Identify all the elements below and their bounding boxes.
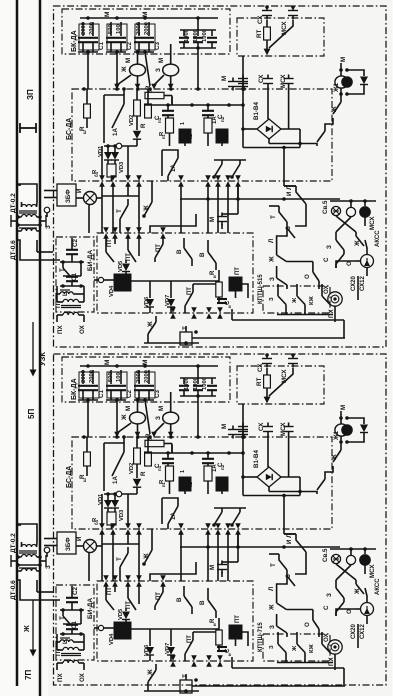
contacts inside KPTSh: [269, 639, 333, 663]
block ZBF: [57, 184, 76, 206]
svg-text:З: З: [269, 297, 275, 301]
svg-text:ДТ-0.2: ДТ-0.2: [10, 533, 17, 553]
svg-text:Т: Т: [270, 215, 277, 219]
relay I coil: [98, 622, 219, 645]
svg-text:Т: Т: [116, 557, 123, 561]
svg-text:С: С: [323, 605, 330, 610]
svg-text:ПХ: ПХ: [57, 673, 64, 682]
capacitor Cp1: [154, 105, 174, 123]
block BS-DA: [66, 89, 332, 181]
lamp Zh signal: [114, 50, 145, 89]
svg-text:ОХ: ОХ: [79, 672, 86, 682]
contact Z ladder: [269, 266, 287, 289]
capacitor bank 1000x3: [179, 16, 217, 50]
relay PT coil: [229, 615, 248, 646]
svg-text:З: З: [269, 625, 276, 629]
svg-text:О: О: [304, 274, 311, 279]
svg-text:VD3: VD3: [119, 509, 125, 521]
terminal MSX lower: [280, 74, 294, 88]
svg-text:М: М: [142, 12, 149, 17]
wire SX feed to I-L: [282, 494, 296, 534]
contact Zh sv: [354, 232, 364, 247]
svg-text:В: В: [176, 597, 183, 602]
svg-text:ПТ: ПТ: [55, 648, 62, 656]
capacitor bank 1000x3: [179, 364, 217, 398]
svg-text:СХ20: СХ20: [351, 624, 357, 639]
svg-text:VD1: VD1: [98, 493, 104, 505]
svg-text:п2: п2: [188, 481, 193, 487]
svg-text:VD3: VD3: [119, 161, 125, 173]
relay 1A coil second: [212, 116, 228, 146]
contact PT top: [103, 581, 118, 610]
contact T chain: [269, 206, 306, 238]
relay I coil: [98, 274, 219, 297]
svg-text:З: З: [326, 593, 333, 597]
contact PT third: [155, 233, 166, 262]
wire mid horizontal A: [180, 197, 340, 201]
svg-text:МСХ: МСХ: [280, 74, 287, 88]
svg-text:1000: 1000: [184, 377, 190, 390]
svg-text:ДТ-0.6: ДТ-0.6: [10, 580, 17, 600]
svg-text:п1: п1: [161, 133, 166, 139]
svg-text:ОХ: ОХ: [79, 324, 86, 334]
terminal third pair: [238, 423, 248, 436]
svg-text:СХ: СХ: [258, 74, 265, 83]
diode VD5: [118, 260, 130, 274]
capacitor C2 500+100: [106, 370, 133, 402]
capacitor Cp2: [202, 105, 225, 122]
svg-text:ПХ: ПХ: [328, 309, 335, 318]
svg-text:С3: С3: [154, 390, 161, 398]
svg-text:ЗБФ: ЗБФ: [65, 189, 72, 203]
svg-text:Л: Л: [268, 239, 275, 243]
wire MSX diagonal: [264, 20, 293, 55]
node 5P track label: [27, 409, 36, 419]
wire arrows bottom BS-DA: [99, 523, 241, 547]
frame signal point block: [54, 354, 387, 685]
svg-text:ДТ-0.2: ДТ-0.2: [10, 193, 17, 213]
svg-text:З: З: [155, 416, 162, 420]
svg-text:С2: С2: [126, 42, 133, 50]
svg-text:5П: 5П: [27, 409, 36, 419]
contact pair right: [212, 160, 246, 179]
wire filter to I relay: [94, 627, 98, 629]
block BI-DA relay: [97, 581, 253, 661]
svg-text:С1: С1: [98, 42, 105, 50]
wire 1000-bank down: [197, 48, 199, 89]
svg-text:Ж: Ж: [121, 414, 128, 421]
svg-text:БИ-ДА: БИ-ДА: [87, 250, 94, 271]
node ZP track label: [26, 89, 35, 100]
indicator Св.5: [322, 547, 376, 578]
svg-text:п2: п2: [188, 133, 193, 139]
svg-text:БС-ДА: БС-ДА: [66, 118, 73, 140]
lamp I indicator: [76, 536, 102, 581]
svg-text:В: В: [199, 252, 206, 257]
contact PT second: [125, 581, 142, 610]
node Zh arrow: [22, 600, 37, 657]
capacitor C2 filter: [60, 586, 84, 612]
contact Zh sv: [354, 580, 364, 595]
wire MSX diagonal: [264, 368, 293, 403]
wire right column: [232, 276, 358, 338]
diode VD7: [165, 629, 175, 661]
diode lamp Zh1: [339, 418, 368, 444]
svg-text:З: З: [46, 565, 52, 569]
diode VD6: [144, 629, 154, 661]
svg-text:Ж: Ж: [121, 66, 128, 73]
svg-text:1000: 1000: [184, 29, 190, 42]
terminal M cap: [221, 424, 248, 439]
resistor Rp1: [159, 466, 174, 494]
terminal MSX lower: [280, 422, 294, 436]
svg-text:БИ-ДА: БИ-ДА: [87, 598, 94, 619]
wire filter to I relay: [94, 279, 98, 281]
contact Zh bottom: [144, 664, 199, 693]
wire ZBF feed: [44, 539, 57, 546]
svg-text:М: М: [209, 565, 216, 570]
contact Zh mid: [142, 529, 152, 566]
svg-text:б4: б4: [94, 519, 99, 525]
svg-text:СХ20: СХ20: [351, 276, 357, 291]
svg-text:МСХ: МСХ: [280, 422, 287, 436]
block BK-DA: [62, 9, 230, 54]
capacitor C2 filter: [60, 238, 84, 264]
resistor Rp1: [159, 118, 174, 146]
svg-text:И: И: [76, 536, 83, 541]
diode VD5: [118, 608, 130, 622]
svg-text:М: М: [221, 76, 228, 81]
svg-text:R: R: [140, 471, 147, 476]
resistor Rsha: [140, 89, 151, 128]
wire verticals mid: [102, 184, 238, 233]
contact B right: [199, 240, 216, 270]
wire BS-DA top bus: [82, 87, 246, 91]
resistor RT: [256, 20, 270, 50]
contact Z sv: [326, 232, 344, 254]
capacitor Ci: [217, 299, 232, 308]
svg-text:М: М: [340, 57, 347, 62]
capacitor C1 2000+2000: [78, 370, 105, 402]
svg-text:М: М: [104, 12, 111, 17]
svg-text:ПТ: ПТ: [235, 615, 241, 623]
resistor RT: [256, 368, 270, 398]
svg-text:RТ: RТ: [256, 30, 263, 38]
transformer PT: [55, 299, 86, 334]
svg-text:М: М: [209, 217, 216, 222]
wire mid horizontal A: [180, 545, 340, 549]
wire C2 column down: [116, 52, 118, 87]
block BI-DA filter: [56, 237, 94, 312]
block BI-DA relay: [97, 233, 253, 313]
terminal SX lower: [258, 422, 273, 436]
resistor Rp2: [186, 118, 212, 146]
svg-text:Т: Т: [270, 563, 277, 567]
contact Zh lamp circuit: [300, 88, 341, 146]
svg-text:ПХ: ПХ: [57, 325, 64, 334]
terminal third pair: [238, 75, 248, 88]
diode VD2: [129, 437, 141, 494]
diode VD6: [144, 281, 154, 313]
svg-text:СХ: СХ: [257, 363, 264, 372]
relay 1A coil: [179, 470, 191, 494]
svg-text:ОХ: ОХ: [323, 632, 330, 642]
contact L ladder: [268, 576, 313, 611]
contact T filter: [59, 610, 81, 624]
frame signal point block: [54, 6, 387, 347]
svg-text:И Л: И Л: [286, 185, 293, 196]
node Z bond terminal: [44, 547, 52, 569]
svg-text:п2: п2: [220, 116, 225, 122]
svg-text:RТ: RТ: [256, 378, 263, 386]
rectifier B1-B4: [253, 102, 281, 139]
svg-text:С3: С3: [154, 42, 161, 50]
wire KPTSh stubs: [278, 284, 322, 291]
indicator Св.5: [322, 199, 376, 230]
node 7P track label: [24, 670, 33, 680]
svg-text:Ж: Ж: [292, 297, 298, 304]
transformer PT: [55, 647, 86, 682]
lamp Zh signal: [114, 398, 145, 437]
svg-text:КПТШ-715: КПТШ-715: [258, 622, 264, 652]
svg-text:1А: 1А: [112, 128, 119, 136]
capacitor C1 filter: [60, 273, 84, 288]
terminal M mid: [150, 561, 227, 582]
contact S O chain: [323, 602, 353, 616]
block КПТШ-515: [258, 274, 330, 313]
relay 1A coil: [179, 122, 191, 146]
svg-text:1А: 1А: [212, 464, 218, 472]
transformer DT-0.6: [10, 568, 60, 600]
svg-text:СХ: СХ: [258, 422, 265, 431]
svg-text:М: М: [125, 58, 132, 63]
relay T coil: [180, 674, 345, 693]
svg-text:7П: 7П: [24, 670, 33, 680]
svg-text:КПТШ-515: КПТШ-515: [258, 274, 264, 304]
contact 1A lower: [162, 498, 178, 529]
svg-text:М: М: [142, 360, 149, 365]
svg-text:Ж: Ж: [22, 625, 31, 633]
svg-text:п1: п1: [157, 117, 162, 123]
svg-text:М: М: [158, 406, 165, 411]
svg-text:М: М: [340, 405, 347, 410]
svg-text:1А: 1А: [112, 476, 119, 484]
contact Z ladder: [269, 614, 287, 637]
wire C3 column down: [145, 52, 150, 86]
relay PT coil: [229, 267, 248, 298]
terminal M cap: [221, 76, 248, 91]
resistor Rp2: [186, 466, 212, 494]
svg-text:З: З: [155, 68, 162, 72]
contact T chain: [269, 554, 306, 586]
capacitor Cp2: [202, 453, 225, 470]
wire crossover Sv: [336, 216, 365, 232]
svg-text:п2: п2: [220, 464, 225, 470]
wire right column: [232, 624, 358, 686]
label SX20 SX12: [351, 624, 366, 639]
contact I-L: [284, 533, 306, 558]
wire arrows bottom BS-DA: [99, 175, 241, 199]
svg-text:И: И: [76, 188, 83, 193]
svg-text:КЖ: КЖ: [309, 295, 315, 305]
terminal OX concentric: [323, 284, 342, 322]
wire crossover Sv: [336, 564, 365, 580]
svg-text:R: R: [140, 123, 147, 128]
wire bridge leads: [241, 56, 302, 148]
transformer lamp symbol: [336, 240, 374, 276]
lamp Zh1: [333, 405, 352, 441]
block ZBF: [57, 532, 76, 554]
block BI-DA filter: [56, 585, 94, 660]
lamp Zh1: [333, 57, 352, 93]
relay 1A coil second: [212, 464, 228, 494]
contact T filter: [59, 262, 81, 276]
svg-text:ПТ: ПТ: [235, 267, 241, 275]
wire bus mid BS-DA: [145, 97, 245, 107]
transformer DT-0.6: [10, 228, 60, 260]
svg-text:И Л: И Л: [286, 533, 293, 544]
svg-text:З: З: [326, 245, 333, 249]
svg-text:МСХ: МСХ: [369, 564, 376, 578]
svg-text:п1: п1: [157, 465, 162, 471]
wire ZBF feed: [44, 191, 57, 198]
contact 1A lower: [162, 150, 178, 181]
svg-text:ПТ: ПТ: [107, 239, 113, 247]
svg-text:М: М: [221, 424, 228, 429]
contact I-L: [284, 185, 306, 210]
block BK-DA: [62, 357, 230, 402]
svg-text:1000: 1000: [202, 377, 208, 390]
svg-text:R: R: [210, 618, 216, 623]
wire C2 column down: [116, 400, 118, 435]
transformer DT-0.2: [10, 184, 46, 227]
svg-text:Ж: Ж: [269, 256, 276, 263]
diode VD2: [129, 89, 141, 146]
svg-text:АКСС: АКСС: [375, 578, 381, 595]
contact O ladder: [304, 610, 319, 638]
svg-text:СХ12: СХ12: [360, 276, 366, 291]
svg-text:1: 1: [180, 122, 186, 125]
capacitor C2 500+100: [106, 22, 133, 54]
svg-text:и: и: [212, 275, 217, 278]
terminal MSX: [281, 353, 298, 383]
svg-text:ПХ: ПХ: [328, 657, 335, 666]
svg-text:ш: ш: [82, 478, 87, 482]
node UZK arrow: [30, 322, 48, 377]
contact O ladder: [304, 262, 319, 290]
capacitor C1 2000+2000: [78, 22, 105, 54]
wire M bus BK-DA: [80, 360, 218, 368]
svg-text:КЖ: КЖ: [309, 643, 315, 653]
svg-text:З: З: [269, 645, 275, 649]
svg-text:1А: 1А: [212, 116, 218, 124]
svg-text:б4: б4: [94, 171, 99, 177]
svg-text:БС-ДА: БС-ДА: [66, 466, 73, 488]
contact L ladder: [268, 228, 313, 263]
diode VD7: [165, 281, 175, 313]
contact S O chain: [323, 254, 353, 268]
wire BS-DA top bus: [82, 435, 246, 439]
svg-text:В: В: [199, 600, 206, 605]
capacitor C3 2000+2000: [134, 370, 161, 402]
capacitor Ci: [217, 647, 232, 656]
svg-text:VD5: VD5: [118, 260, 124, 272]
resistor Rsh: [79, 89, 90, 134]
svg-text:1А: 1А: [171, 512, 177, 520]
wire rail ZP-5P left: [16, 0, 19, 686]
svg-text:СХ: СХ: [257, 15, 264, 24]
inductor L: [57, 286, 84, 300]
contacts inside KPTSh: [269, 291, 333, 315]
contact PT lower: [185, 284, 216, 313]
resistor Rb: [145, 85, 172, 105]
svg-text:ПТ: ПТ: [107, 587, 113, 595]
resistor Rsh: [79, 437, 90, 482]
terminal M mid: [150, 213, 227, 234]
svg-text:З: З: [269, 277, 276, 281]
svg-text:ДТ-0.6: ДТ-0.6: [10, 240, 17, 260]
wire 1000-bank down: [197, 396, 199, 437]
wire verticals mid: [102, 532, 238, 581]
svg-text:Св.5: Св.5: [322, 548, 329, 562]
wire KPTSh stubs: [278, 632, 322, 639]
contact B left: [176, 238, 192, 266]
label AKSS: [375, 578, 381, 595]
svg-text:R: R: [145, 433, 152, 438]
wire C1 column down: [87, 52, 89, 89]
svg-text:АКСС: АКСС: [375, 230, 381, 247]
svg-text:УЗК: УЗК: [38, 352, 47, 366]
block RT feed: [237, 366, 324, 404]
svg-text:ш: ш: [82, 130, 87, 134]
contact Zh lamp circuit: [300, 436, 341, 494]
diode lamp Zh1: [339, 70, 368, 96]
lamp Z signal: [151, 44, 179, 89]
svg-text:С1: С1: [98, 390, 105, 398]
contact pair right: [212, 508, 246, 527]
svg-text:О: О: [304, 622, 311, 627]
label AKSS: [375, 230, 381, 247]
wire boundary arrows BI-DA top: [103, 575, 166, 581]
svg-text:М: М: [125, 406, 132, 411]
svg-text:Св.5: Св.5: [322, 200, 329, 214]
capacitor Cp1: [154, 453, 174, 471]
transformer lamp symbol: [336, 588, 374, 624]
wire C3 column down: [145, 400, 150, 434]
block RT feed: [237, 18, 324, 56]
svg-text:ЗБФ: ЗБФ: [65, 537, 72, 551]
resistor Rsha: [140, 437, 151, 476]
svg-text:ПТ: ПТ: [55, 300, 62, 308]
contact PT second: [125, 233, 142, 262]
lamp I indicator: [76, 188, 102, 233]
block BS-DA: [66, 437, 332, 529]
svg-text:Ж: Ж: [269, 604, 276, 611]
svg-text:и: и: [227, 653, 232, 656]
svg-text:В: В: [176, 249, 183, 254]
contact PT top: [103, 233, 118, 262]
svg-text:М: М: [158, 58, 165, 63]
svg-text:1А: 1А: [171, 164, 177, 172]
label SX20 SX12: [351, 276, 366, 291]
wire bus mid BS-DA: [145, 445, 245, 455]
terminal OX concentric: [323, 632, 342, 670]
svg-text:и: и: [212, 623, 217, 626]
svg-text:М: М: [104, 360, 111, 365]
contact PT lower: [185, 632, 216, 661]
contact T mid: [116, 199, 128, 233]
contact PT third: [155, 581, 166, 610]
